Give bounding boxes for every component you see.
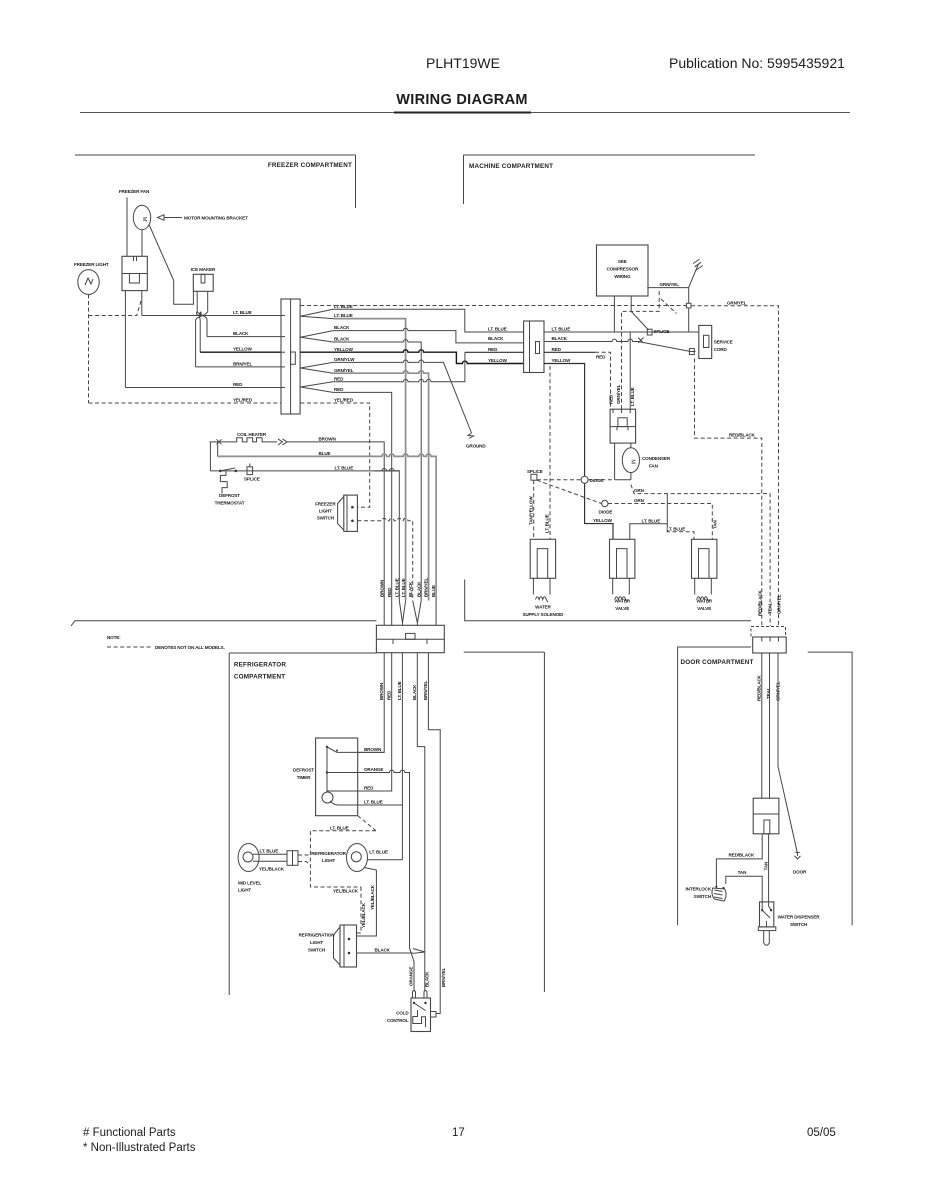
ground arrow and label <box>466 433 486 449</box>
dashed YEL/BLACK into switch <box>357 887 366 933</box>
wire YELLOW row freezer <box>200 347 281 353</box>
freezer light label <box>74 262 109 267</box>
freezer floor divider left <box>71 621 376 626</box>
wire TEAL door drop <box>769 653 771 798</box>
svg-text:RED: RED <box>364 786 374 791</box>
svg-text:LT. BLUE: LT. BLUE <box>642 518 661 523</box>
svg-text:BRN/YEL: BRN/YEL <box>233 361 252 366</box>
svg-text:REFRIGERATION: REFRIGERATION <box>299 933 336 938</box>
wire YELLOW row to machine connector <box>300 347 523 364</box>
wire BLACK machine row to service cord <box>488 336 696 351</box>
machine timer control <box>610 409 636 443</box>
wire fan to ice maker bracket path <box>149 225 193 305</box>
wire BLACK 2 drop to refrigerator <box>333 340 421 601</box>
interlock switch <box>686 886 727 901</box>
diode 1 on yellow drop <box>581 476 603 483</box>
wire BLACK 1 to machine connector <box>333 328 524 343</box>
svg-text:TAN: TAN <box>713 520 718 529</box>
splice on LT.BLUE machine row <box>647 329 669 335</box>
cold control <box>387 991 436 1032</box>
svg-text:BLACK: BLACK <box>425 971 430 987</box>
wire LT.BLUE machine row to splice and service cord <box>488 327 699 332</box>
door compartment bracket left <box>678 647 754 925</box>
header model number <box>426 55 500 71</box>
refrigerator compartment bracket left <box>229 653 376 995</box>
svg-text:BLACK: BLACK <box>334 325 350 330</box>
dashed LT.BLUE to right water valve <box>667 524 695 540</box>
svg-text:COMPARTMENT: COMPARTMENT <box>234 674 285 681</box>
refrigerator harness connector <box>376 625 444 652</box>
freezer compartment header bracket <box>75 155 356 208</box>
diode 2 <box>599 500 613 514</box>
svg-text:SWITCH: SWITCH <box>308 948 326 953</box>
wire BRN/YEL row freezer <box>196 361 281 367</box>
svg-text:LT. BLUE: LT. BLUE <box>394 578 399 597</box>
wire GRN dashed row 2 to TAN drop <box>608 498 718 539</box>
svg-text:MOTOR MOUNTING BRACKET: MOTOR MOUNTING BRACKET <box>184 216 248 221</box>
svg-text:BROWN: BROWN <box>319 437 337 442</box>
dashed stubs from mid level light <box>298 855 310 865</box>
svg-text:LIGHT: LIGHT <box>238 888 251 893</box>
svg-text:SWITCH: SWITCH <box>790 922 808 927</box>
water valve center <box>610 539 635 611</box>
ground lead connector square <box>686 288 691 332</box>
wire LT.BLUE 1 to machine connector <box>333 309 524 332</box>
wire BLACK row freezer <box>207 331 281 337</box>
svg-text:SWITCH: SWITCH <box>317 515 335 520</box>
freezer cabinet connector <box>281 299 300 414</box>
taper merge LT.BLUE pair into connector <box>399 601 405 626</box>
wire RED 1 to machine connector <box>333 352 524 382</box>
svg-text:LT. BLUE: LT. BLUE <box>334 304 353 309</box>
water dispenser switch <box>758 902 820 945</box>
svg-text:YEL/BLACK: YEL/BLACK <box>259 866 285 871</box>
title WIRING DIAGRAM <box>80 92 850 113</box>
wire RED pair taper <box>300 376 344 392</box>
svg-text:LT. BLUE: LT. BLUE <box>369 850 388 855</box>
svg-text:CONDENSER: CONDENSER <box>642 456 671 461</box>
svg-text:SEE: SEE <box>618 259 627 264</box>
wire GRN/YEL long dashed top run <box>300 305 686 307</box>
svg-text:YEL/RED: YEL/RED <box>233 398 253 403</box>
svg-text:LT. BLUE: LT. BLUE <box>552 327 571 332</box>
svg-text:CONTROL: CONTROL <box>387 1018 409 1023</box>
wire RED/BLACK to interlock switch <box>716 834 762 887</box>
svg-text:BRN/YEL: BRN/YEL <box>424 578 429 597</box>
defrost thermostat symbol <box>215 472 245 506</box>
svg-text:BLUE: BLUE <box>431 585 436 597</box>
wire freezer light dashed YEL/RED drop <box>88 294 90 403</box>
wire BLACK pair taper <box>300 325 350 342</box>
svg-text:RED: RED <box>334 387 344 392</box>
svg-text:GRN/YEL: GRN/YEL <box>660 282 680 287</box>
svg-text:RED/BLACK: RED/BLACK <box>757 674 762 701</box>
svg-text:RED: RED <box>596 354 606 359</box>
wire LT.BLUE row from timer <box>330 800 402 805</box>
svg-text:LT. BLUE: LT. BLUE <box>260 848 279 853</box>
svg-text:GRN: GRN <box>634 488 645 493</box>
chassis ground symbol top right <box>689 259 703 288</box>
wire LT.BLUE 2 drop to refrigerator <box>333 319 406 601</box>
defrost thermostat contacts and LT.BLUE row <box>210 466 399 601</box>
svg-text:WATER: WATER <box>535 604 551 609</box>
freezer floor divider right with riser <box>465 580 751 621</box>
svg-text:COLD: COLD <box>396 1011 409 1016</box>
freezer fan label <box>119 189 150 194</box>
wire RED row from timer <box>327 786 392 791</box>
wire BRN/YEL 2 drop to refrigerator <box>333 371 429 601</box>
svg-text:SPLICE: SPLICE <box>654 329 670 334</box>
wire ORANGE from timer to cold control <box>327 767 414 991</box>
svg-text:BLUE: BLUE <box>319 451 331 456</box>
wire compressor right pin to splice <box>631 296 648 330</box>
svg-text:17: 17 <box>452 1127 465 1139</box>
svg-text:RED: RED <box>334 376 344 381</box>
wire BROWN drop to defrost timer <box>358 653 385 753</box>
rotated labels above door connector <box>758 589 782 616</box>
wire RED/BLACK door drop <box>761 653 763 798</box>
svg-text:LT. BLUE: LT. BLUE <box>488 327 507 332</box>
machine compartment header bracket <box>464 155 756 204</box>
svg-text:DEFROST: DEFROST <box>293 768 314 773</box>
svg-text:NOTE:: NOTE: <box>107 635 121 640</box>
svg-text:RED/BLACK: RED/BLACK <box>729 852 756 857</box>
wire RED 2 drop to refrigerator <box>333 392 392 625</box>
svg-text:RED/BLACK: RED/BLACK <box>758 589 763 616</box>
svg-text:FREEZER COMPARTMENT: FREEZER COMPARTMENT <box>268 162 352 169</box>
svg-text:CORD: CORD <box>714 347 728 352</box>
svg-text:SWITCH: SWITCH <box>694 894 712 899</box>
header publication number <box>669 55 845 71</box>
svg-text:DIODE: DIODE <box>599 510 613 515</box>
ice maker label <box>191 267 216 272</box>
svg-text:LT. BLUE: LT. BLUE <box>397 681 402 700</box>
svg-text:YEL/BLACK: YEL/BLACK <box>361 902 366 928</box>
machine compartment connector <box>524 321 544 373</box>
svg-text:YEL/RED: YEL/RED <box>334 398 354 403</box>
svg-text:TAN: TAN <box>738 870 747 875</box>
dashed LT.BLUE drop to solenoid <box>545 366 550 539</box>
svg-text:COIL HEATER: COIL HEATER <box>237 432 267 437</box>
wire GRN dashed row 1 to TEAL drop <box>631 485 770 627</box>
wire TAN door drop to dispenser <box>763 834 771 910</box>
svg-text:LT. BLUE: LT. BLUE <box>667 526 686 531</box>
svg-text:BLACK: BLACK <box>552 336 568 341</box>
wire RED row freezer <box>125 291 281 388</box>
svg-text:FAN: FAN <box>649 463 659 468</box>
svg-text:BLACK: BLACK <box>408 581 413 597</box>
door mid connector <box>753 798 779 834</box>
coil heater label <box>237 432 267 437</box>
svg-text:YELLOW: YELLOW <box>593 518 613 523</box>
svg-text:YELLOW: YELLOW <box>233 347 253 352</box>
wire YELLOW machine row to water valve <box>488 358 613 539</box>
wire GRN/YEL from compressor to ground <box>647 282 688 287</box>
svg-text:ICE MAKER: ICE MAKER <box>191 267 216 272</box>
svg-text:BRN/YEL: BRN/YEL <box>441 968 446 987</box>
mid level light <box>238 844 298 893</box>
svg-text:M: M <box>630 459 636 464</box>
svg-text:GROUND: GROUND <box>466 444 486 449</box>
wire BLUE row to refrigerator drop <box>218 451 436 625</box>
svg-text:TAN/YELLOW: TAN/YELLOW <box>528 496 533 525</box>
refrigerator compartment bracket right <box>464 652 545 992</box>
wire RED/BLACK dashed from service cord <box>695 359 762 627</box>
wire BLACK from light switch <box>357 948 425 954</box>
wire BRN/YEL pair taper <box>300 357 355 373</box>
compressor wiring box <box>597 245 649 296</box>
wire BROWN row from timer <box>337 747 384 752</box>
svg-text:FREEZER: FREEZER <box>315 501 336 506</box>
wire BLACK dashed from light switch <box>357 518 412 600</box>
svg-text:BROWN: BROWN <box>379 682 384 700</box>
freezer fan connector <box>122 256 147 290</box>
wire YEL/RED dashed to light switch <box>300 398 369 508</box>
defrost thermostat loop left risers <box>210 442 217 471</box>
svg-text:RED: RED <box>552 347 562 352</box>
svg-text:GRN/YLW: GRN/YLW <box>334 357 355 362</box>
svg-text:05/05: 05/05 <box>807 1127 836 1139</box>
dashed diode row to condenser fan <box>537 479 615 481</box>
svg-text:PLHT19WE: PLHT19WE <box>426 55 500 71</box>
wire BRN/YEL drop to cold control side <box>428 653 440 1014</box>
svg-text:YELLOW: YELLOW <box>488 358 508 363</box>
water valve right <box>692 539 717 611</box>
svg-text:ORANGE: ORANGE <box>364 767 383 772</box>
svg-text:WATER DISPENSER: WATER DISPENSER <box>778 915 821 920</box>
svg-text:LT. BLUE: LT. BLUE <box>630 387 635 406</box>
svg-text:LT. BLUE: LT. BLUE <box>334 313 353 318</box>
svg-text:BLACK: BLACK <box>334 337 350 342</box>
freezer light <box>78 270 99 295</box>
svg-text:WIRING: WIRING <box>614 274 631 279</box>
svg-text:YELLOW: YELLOW <box>334 347 354 352</box>
svg-text:COMPRESSOR: COMPRESSOR <box>606 267 639 272</box>
rotated labels near cold control <box>409 967 447 987</box>
svg-text:YELLOW: YELLOW <box>552 358 572 363</box>
svg-text:FREEZER FAN: FREEZER FAN <box>119 189 150 194</box>
wire RED drop to defrost timer <box>358 653 392 791</box>
wire LT.BLUE to water valve center <box>630 494 668 540</box>
wire LT.BLUE light to drop <box>368 850 403 860</box>
wire BROWN row to refrigerator drop <box>287 437 384 626</box>
svg-text:M: M <box>141 217 147 222</box>
taper merge BLACK pair into connector <box>413 601 422 626</box>
ice maker leads and crossover loop <box>196 291 208 367</box>
svg-text:SUPPLY SOLENOID: SUPPLY SOLENOID <box>522 612 564 617</box>
svg-text:REFRIGERATOR: REFRIGERATOR <box>311 851 346 856</box>
svg-text:BROWN: BROWN <box>364 747 382 752</box>
svg-text:LIGHT: LIGHT <box>310 940 323 945</box>
svg-text:TEAL: TEAL <box>766 687 771 699</box>
svg-text:GRN/YEL: GRN/YEL <box>334 368 354 373</box>
svg-text:TAN: TAN <box>763 861 768 870</box>
svg-text:ORANGE: ORANGE <box>409 967 414 986</box>
svg-text:DEFROST: DEFROST <box>219 493 240 498</box>
splice square at service cord black lead <box>689 349 694 355</box>
rotated wire labels below connector <box>379 681 428 700</box>
svg-text:LT. BLUE: LT. BLUE <box>364 800 383 805</box>
wire compressor left pin to LT.BLUE row <box>613 296 615 332</box>
wire TAN from interlock to dispenser <box>726 870 762 910</box>
svg-text:YEL/BLACK: YEL/BLACK <box>370 884 375 910</box>
svg-text:RED/BLACK: RED/BLACK <box>729 433 756 438</box>
wire freezer light dashed to LT BLUE row <box>89 299 142 316</box>
svg-text:BROWN: BROWN <box>379 579 384 597</box>
wire LT.BLUE solid into timer <box>629 332 631 409</box>
svg-text:LT. BLUE: LT. BLUE <box>545 514 550 533</box>
wire RED machine row dashed to timer <box>488 347 611 409</box>
motor mounting bracket callout <box>158 215 249 221</box>
door ground chevron <box>793 852 807 874</box>
wire BLACK drop to cold control <box>417 653 425 992</box>
note text <box>107 635 225 650</box>
door harness connector <box>751 627 786 654</box>
svg-text:VALVE: VALVE <box>697 606 711 611</box>
svg-text:LIGHT: LIGHT <box>322 858 335 863</box>
dashed diagonal splice to diode 2 <box>537 480 602 503</box>
service cord <box>699 325 733 358</box>
svg-text:BLACK: BLACK <box>375 948 391 953</box>
rotated labels below door connector <box>757 674 781 701</box>
coil heater element <box>210 438 288 445</box>
wire GRN/YEL door drop to door ground <box>778 653 798 856</box>
svg-text:# Functional Parts: # Functional Parts <box>83 1127 176 1139</box>
svg-text:BLACK: BLACK <box>233 331 249 336</box>
wire LT.BLUE drop to refrigerator light <box>401 653 403 860</box>
svg-text:GRN: GRN <box>634 498 645 503</box>
svg-text:WATER: WATER <box>614 599 630 604</box>
svg-text:WATER: WATER <box>696 599 712 604</box>
refrigerator light <box>311 844 367 872</box>
dashed TAN/YELLOW from splice to solenoid <box>528 480 533 539</box>
ice maker connector <box>193 274 213 291</box>
dashed GRN/YEL compressor branch <box>609 291 677 409</box>
wire YEL/RED dashed row freezer <box>89 398 282 404</box>
freezer fan motor <box>133 205 150 229</box>
svg-text:SPLICE: SPLICE <box>244 477 260 482</box>
svg-text:GRN/YEL: GRN/YEL <box>727 300 747 305</box>
wire YEL/BLACK light to switch <box>357 868 377 937</box>
svg-text:RED: RED <box>609 394 614 404</box>
svg-text:SERVICE: SERVICE <box>714 340 733 345</box>
svg-text:DOOR: DOOR <box>793 869 807 874</box>
dashed LT.BLUE branch from timer <box>310 816 376 894</box>
svg-text:MID LEVEL: MID LEVEL <box>238 881 261 886</box>
wire LT.BLUE pair taper right of connector <box>300 304 352 319</box>
svg-text:RED: RED <box>386 690 391 700</box>
svg-text:BLACK: BLACK <box>488 336 504 341</box>
svg-text:TEAL: TEAL <box>767 602 772 614</box>
wire LT.BLUE row freezer <box>142 291 281 316</box>
svg-text:FREEZER LIGHT: FREEZER LIGHT <box>74 262 109 267</box>
svg-text:RED: RED <box>488 347 498 352</box>
rotated wire labels above refrigerator connector <box>379 578 436 597</box>
svg-text:Publication No: 5995435921: Publication No: 5995435921 <box>669 55 845 71</box>
splice on thermostat row <box>244 464 260 482</box>
footer <box>83 1127 836 1154</box>
svg-text:GRN/YEL: GRN/YEL <box>616 384 621 404</box>
svg-text:GRN/YEL: GRN/YEL <box>777 594 782 614</box>
svg-text:REFRIGERATOR: REFRIGERATOR <box>234 662 286 669</box>
svg-text:INTERLOCK: INTERLOCK <box>686 887 712 892</box>
refrigeration light switch <box>299 925 357 967</box>
condenser fan motor <box>615 443 671 480</box>
svg-text:BRN/YEL: BRN/YEL <box>423 681 428 700</box>
svg-text:BLACK: BLACK <box>412 684 417 700</box>
wire freezer fan leads <box>127 197 142 256</box>
svg-text:RED: RED <box>387 587 392 597</box>
svg-text:DENOTES NOT ON ALL MODELS.: DENOTES NOT ON ALL MODELS. <box>155 645 225 650</box>
door compartment bracket right <box>808 652 852 925</box>
defrost timer <box>293 738 358 816</box>
svg-text:WIRING DIAGRAM: WIRING DIAGRAM <box>396 92 527 108</box>
svg-text:BLACK: BLACK <box>416 581 421 597</box>
freezer light switch <box>315 495 357 531</box>
water supply solenoid valve <box>522 539 564 617</box>
svg-text:SPLICE: SPLICE <box>527 469 543 474</box>
splice for supply solenoid <box>527 469 543 480</box>
svg-text:RED: RED <box>233 382 243 387</box>
svg-text:LT. BLUE: LT. BLUE <box>401 578 406 597</box>
svg-text:LT. BLUE: LT. BLUE <box>335 466 354 471</box>
svg-text:YEL/BLACK: YEL/BLACK <box>333 888 359 893</box>
svg-text:TIMER: TIMER <box>297 775 311 780</box>
svg-text:* Non-Illustrated Parts: * Non-Illustrated Parts <box>83 1142 196 1154</box>
wire BRN/YEL 1 to ground diagonal <box>333 360 472 433</box>
svg-text:LT. BLUE: LT. BLUE <box>233 310 252 315</box>
svg-text:VALVE: VALVE <box>615 606 629 611</box>
svg-text:LIGHT: LIGHT <box>319 508 332 513</box>
svg-text:DOOR COMPARTMENT: DOOR COMPARTMENT <box>681 659 754 666</box>
svg-text:MACHINE COMPARTMENT: MACHINE COMPARTMENT <box>469 163 553 170</box>
svg-text:LT. BLUE: LT. BLUE <box>330 825 349 830</box>
svg-text:THERMOSTAT: THERMOSTAT <box>215 500 245 505</box>
wire GRN/YEL dashed to door <box>691 300 779 626</box>
